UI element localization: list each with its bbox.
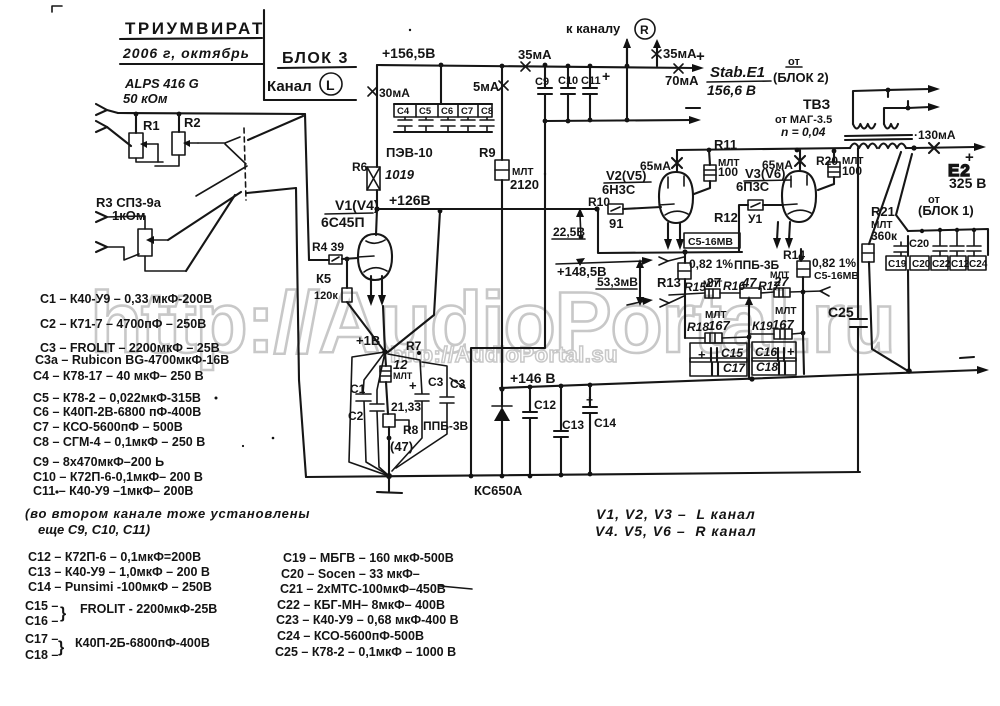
svg-text:167: 167 — [708, 318, 730, 333]
svg-text:360к: 360к — [871, 229, 898, 243]
svg-text:R4 39: R4 39 — [312, 240, 344, 254]
annotation lower arrow — [627, 301, 645, 305]
node anode junction — [374, 206, 379, 211]
svg-text:БЛОК 3: БЛОК 3 — [282, 50, 349, 67]
svg-text:С17: С17 — [723, 361, 746, 375]
svg-text:35мА: 35мА — [663, 46, 697, 61]
svg-text:1019: 1019 — [385, 167, 415, 182]
svg-text:120к: 120к — [314, 290, 338, 302]
svg-text:+: + — [698, 347, 706, 362]
svg-text:+146 В: +146 В — [510, 370, 556, 386]
svg-text:+: + — [696, 48, 705, 65]
svg-text:R14: R14 — [783, 248, 805, 262]
wire to switch second — [186, 195, 235, 271]
svg-text:12: 12 — [393, 357, 408, 372]
wire top rail — [118, 113, 305, 114]
node V3 cathode — [798, 255, 803, 260]
capacitor C9 — [538, 65, 552, 121]
svg-text:35мА: 35мА — [518, 47, 552, 62]
svg-text:С6: С6 — [441, 106, 453, 117]
input jack arrows lower — [96, 212, 107, 222]
capacitor C2 — [370, 352, 388, 475]
resistor R6 — [376, 65, 378, 167]
svg-text:С7 – КСО-5600пФ – 500В: С7 – КСО-5600пФ – 500В — [33, 420, 183, 434]
svg-text:·130мА: ·130мА — [914, 128, 956, 142]
svg-text:ППБ-3В: ППБ-3В — [423, 419, 469, 433]
node grid V1 — [345, 257, 350, 262]
svg-text:+: + — [586, 393, 593, 407]
wire R7 to R8 — [386, 382, 388, 414]
capacitor C7 — [461, 117, 475, 132]
wire R10 node down to cathode line — [598, 209, 742, 253]
wire top supply rail — [377, 65, 695, 68]
node V2 cathode — [682, 249, 687, 254]
svg-text:С16 –: С16 – — [25, 614, 58, 628]
svg-text:С8: С8 — [481, 106, 493, 117]
wire switch to grid column — [248, 116, 303, 140]
resistor R12 У1 — [748, 200, 763, 210]
svg-text:С9: С9 — [535, 76, 549, 88]
svg-text:С5: С5 — [419, 106, 432, 117]
resistor R4 39 — [329, 255, 342, 264]
svg-text:МЛТ: МЛТ — [775, 306, 796, 317]
svg-text:65мА: 65мА — [762, 158, 793, 172]
capacitor C3 — [388, 354, 429, 471]
svg-text:50 кОм: 50 кОм — [123, 91, 168, 106]
cluster outer loop left — [349, 352, 386, 475]
resistor R13 — [684, 252, 686, 263]
svg-text:R1: R1 — [143, 118, 160, 133]
node R2 top — [177, 112, 182, 117]
wire input to R3 — [107, 216, 145, 229]
svg-text:С20: С20 — [909, 238, 929, 250]
wire input to top rail — [107, 110, 118, 113]
wire R4 to tube — [342, 258, 358, 259]
wire bank bottom rail — [394, 131, 492, 133]
svg-text:R10: R10 — [588, 195, 610, 209]
svg-text:С17 –: С17 – — [25, 632, 58, 646]
svg-text:65мА: 65мА — [640, 159, 671, 173]
input jack arrows upper — [96, 104, 107, 115]
svg-text:(БЛОК 1): (БЛОК 1) — [918, 203, 974, 218]
cathode arrows V3 — [789, 222, 790, 240]
svg-text:(БЛОК 2): (БЛОК 2) — [773, 70, 829, 85]
node rail R9 — [500, 64, 505, 69]
svg-text:С10: С10 — [558, 75, 578, 87]
svg-text:V1(V4): V1(V4) — [335, 197, 379, 213]
svg-text:0,82 1%: 0,82 1% — [689, 257, 733, 271]
svg-text:+156,5В: +156,5В — [382, 45, 435, 61]
wire cathode down — [383, 306, 385, 352]
svg-text:С6 – К40П-2В-6800 пФ-400В: С6 – К40П-2В-6800 пФ-400В — [33, 405, 201, 419]
resistor R17 27 МЛТ — [761, 292, 774, 293]
svg-text:R15: R15 — [684, 280, 706, 294]
svg-text:R11: R11 — [714, 137, 737, 152]
capacitor C14 — [588, 383, 593, 388]
capacitor C12 — [528, 385, 533, 390]
capacitor C15 box — [690, 343, 747, 362]
transformer secondary winding 2 — [884, 107, 930, 124]
wire long vertical to ground rail — [296, 188, 306, 477]
node rail C4 — [439, 63, 444, 68]
wire R12 left down — [739, 205, 748, 252]
svg-text:К40П-2Б-6800пФ-400В: К40П-2Б-6800пФ-400В — [75, 636, 210, 650]
label 30мА with x mark — [368, 87, 377, 96]
wire center column — [748, 327, 750, 379]
switch gang dashed line — [244, 128, 246, 200]
svg-text:R7: R7 — [406, 339, 422, 353]
svg-text:С3: С3 — [428, 375, 444, 389]
svg-text:}: } — [60, 605, 66, 622]
svg-text:R13: R13 — [657, 275, 681, 290]
potentiometer R2 — [178, 114, 180, 132]
wire +146 rail to output — [500, 370, 980, 388]
resistor R8 — [383, 414, 395, 427]
svg-text:С12 – К72П-6 – 0,1мкФ=200В: С12 – К72П-6 – 0,1мкФ=200В — [28, 550, 201, 564]
svg-text:С1 – К40-У9 – 0,33 мкФ-200В: С1 – К40-У9 – 0,33 мкФ-200В — [40, 292, 212, 306]
svg-text:Stab.E1: Stab.E1 — [710, 64, 765, 81]
wire minus drop from psu — [471, 121, 545, 476]
ground node — [386, 473, 392, 479]
svg-text:30мА: 30мА — [379, 86, 410, 100]
svg-text:КС650А: КС650А — [474, 483, 523, 498]
zener diode КС650А — [499, 386, 504, 391]
wire bank bottom to output node — [908, 236, 909, 371]
svg-text:С11: С11 — [581, 75, 601, 87]
wire switch lower to long vertical — [247, 188, 296, 193]
capacitor C17 box — [690, 358, 747, 376]
svg-text:}: } — [58, 639, 64, 656]
svg-text:С18: С18 — [756, 360, 778, 374]
svg-text:К5: К5 — [316, 271, 331, 286]
capacitor C8 — [480, 117, 494, 132]
svg-text:(во втором канале тоже установ: (во втором канале тоже установлены — [25, 506, 310, 521]
svg-text:С24: С24 — [969, 259, 988, 270]
wire R3 wiper to switch — [168, 192, 241, 240]
ground symbol — [377, 476, 402, 493]
svg-text:6П3С: 6П3С — [736, 179, 770, 194]
svg-text:+126В: +126В — [389, 192, 431, 208]
svg-text:С18 –: С18 – — [25, 648, 58, 662]
wire R6 to V1 anode — [376, 209, 377, 235]
svg-text:R2: R2 — [184, 115, 201, 130]
svg-text:еще С9, С10, С11): еще С9, С10, С11) — [38, 522, 150, 537]
svg-text:70мА: 70мА — [665, 73, 699, 88]
capacitor C5 — [419, 117, 433, 132]
x mark 70мА — [674, 64, 683, 73]
wire R12 to V3 grid — [763, 204, 783, 206]
capacitor C16 box — [752, 342, 796, 361]
wire primary to E2 — [906, 147, 914, 149]
svg-text:С3а – Rubicon BG-4700мкФ-16В: С3а – Rubicon BG-4700мкФ-16В — [35, 353, 229, 367]
svg-text:С2: С2 — [348, 409, 364, 423]
svg-text:С5-16МВ: С5-16МВ — [688, 236, 733, 248]
svg-text:С2 – К71-7 – 4700пФ – 250В: С2 – К71-7 – 4700пФ – 250В — [40, 317, 206, 331]
svg-text:+1В: +1В — [356, 333, 380, 348]
svg-text:R8: R8 — [403, 423, 419, 437]
resistor R15 27 МЛТ — [669, 293, 705, 295]
svg-text:R9: R9 — [479, 145, 496, 160]
wire R10 to V2 grid — [623, 207, 661, 209]
wire psu minus rail — [545, 120, 692, 121]
svg-text:+: + — [602, 68, 610, 84]
wire V2 anode — [676, 150, 678, 172]
wire R4 row — [309, 259, 329, 261]
capacitor C18 box — [752, 358, 796, 375]
tube V1 6С45П — [358, 234, 392, 280]
wire pot bottoms — [136, 158, 163, 162]
svg-text:С9 – 8х470мкФ–200 Ь: С9 – 8х470мкФ–200 Ь — [33, 455, 164, 469]
svg-text:С14 – Punsimi -100мкФ – 250В: С14 – Punsimi -100мкФ – 250В — [28, 580, 212, 594]
scan speckles — [215, 397, 218, 400]
svg-text:С25 – К78-2 – 0,1мкФ – 1000 В: С25 – К78-2 – 0,1мкФ – 1000 В — [275, 645, 456, 659]
wire V3 anode — [799, 150, 801, 171]
tube V3 — [782, 171, 816, 222]
capacitor C23 col — [950, 230, 964, 256]
box С5-16МВ — [684, 233, 740, 248]
svg-text:ПЭВ-10: ПЭВ-10 — [386, 145, 433, 160]
svg-text:6Н3С: 6Н3С — [602, 182, 636, 197]
svg-text:2006 г, октябрь: 2006 г, октябрь — [122, 45, 250, 61]
annotation +148,5В arrow — [576, 258, 585, 266]
resistor R11 МЛТ 100 — [709, 150, 710, 165]
svg-text:к каналу: к каналу — [566, 21, 621, 36]
capacitor C1 — [356, 352, 388, 475]
capacitor C10 — [561, 65, 575, 120]
resistor R9 — [501, 66, 503, 160]
wire R3 bottom — [145, 256, 186, 271]
wire R8 to ground — [388, 427, 390, 476]
capacitor C6 — [441, 117, 455, 132]
svg-text:100: 100 — [718, 165, 738, 179]
resistor R10 — [594, 206, 599, 211]
svg-text:С19: С19 — [888, 259, 907, 270]
capacitor C3a crossed — [396, 362, 454, 468]
svg-text:6С45П: 6С45П — [321, 214, 365, 230]
wire channel R drop — [626, 40, 628, 120]
svg-text:V1, V2, V3 – L канал: V1, V2, V3 – L канал — [596, 506, 756, 522]
svg-text:100: 100 — [842, 164, 862, 178]
svg-text:5мА: 5мА — [473, 79, 500, 94]
svg-text:С7: С7 — [461, 106, 473, 117]
transformer primary coils — [850, 144, 906, 149]
cathode arrows V2 — [667, 223, 669, 241]
svg-text:С23 – К40-У9 – 0,68 мкФ-400 В: С23 – К40-У9 – 0,68 мкФ-400 В — [276, 613, 459, 627]
svg-text:n = 0,04: n = 0,04 — [781, 125, 826, 139]
svg-text:С1: С1 — [350, 382, 366, 396]
wire anode rail R11 — [677, 148, 850, 150]
svg-text:С12: С12 — [951, 259, 970, 270]
svg-text:0,82 1%: 0,82 1% — [812, 256, 856, 270]
svg-text:С20: С20 — [912, 259, 931, 270]
tube V2 — [659, 172, 693, 223]
wire ground rail — [306, 472, 860, 477]
svg-text:С16: С16 — [755, 345, 777, 359]
svg-text:R: R — [640, 23, 649, 37]
svg-text:V4. V5, V6 – R канал: V4. V5, V6 – R канал — [595, 523, 757, 539]
svg-text:FROLIT - 2200мкФ-25В: FROLIT - 2200мкФ-25В — [80, 602, 217, 616]
svg-text:91: 91 — [609, 216, 623, 231]
capacitor C24 col — [967, 230, 981, 256]
svg-text:L: L — [326, 77, 335, 93]
svg-text:ТВЗ: ТВЗ — [803, 96, 830, 112]
wire right column down — [803, 334, 804, 374]
svg-text:ТРИУМВИРАТ: ТРИУМВИРАТ — [125, 19, 265, 38]
svg-text:С22 – КБГ-МН– 8мкФ– 400В: С22 – КБГ-МН– 8мкФ– 400В — [277, 598, 445, 612]
wire +126 rail to R10 — [377, 208, 596, 210]
capacitor C4 — [398, 117, 412, 132]
svg-text:С4 – К78-17 – 40 мкФ– 250 В: С4 – К78-17 – 40 мкФ– 250 В — [33, 369, 204, 383]
capacitor C21 col — [933, 230, 947, 256]
svg-text:27: 27 — [705, 275, 721, 290]
wire arrow 35мА up — [656, 46, 658, 66]
svg-text:С14: С14 — [594, 416, 616, 430]
wire row A right with arrow — [790, 291, 822, 292]
svg-text:С5 – К78-2 – 0,022мкФ-315В: С5 – К78-2 – 0,022мкФ-315В — [33, 391, 201, 405]
capacitor C13 — [559, 384, 564, 389]
svg-text:R12: R12 — [714, 210, 738, 225]
svg-text:С8 – СГМ-4 – 0,1мкФ – 250 В: С8 – СГМ-4 – 0,1мкФ – 250 В — [33, 435, 205, 449]
wire R2 area to switch — [196, 166, 247, 196]
minus tick right — [960, 357, 974, 358]
svg-text:С19 – МБГВ – 160 мкФ-500В: С19 – МБГВ – 160 мкФ-500В — [283, 551, 454, 565]
node cathode cluster — [382, 349, 388, 355]
svg-text:47: 47 — [741, 275, 757, 290]
svg-text:22,5В: 22,5В — [553, 225, 585, 239]
svg-text:С10 – К72П-6-0,1мкФ– 200 В: С10 – К72П-6-0,1мкФ– 200 В — [33, 470, 203, 484]
svg-text:С4: С4 — [397, 106, 410, 117]
svg-text:С5-16МВ: С5-16МВ — [814, 270, 859, 282]
cap labels boxed row — [886, 256, 906, 270]
transformer core — [845, 135, 912, 140]
node R1 top — [134, 112, 139, 117]
annotation 22,5В arrow — [579, 235, 584, 240]
svg-text:С12: С12 — [534, 398, 556, 412]
svg-text:http://AudioPortal.su: http://AudioPortal.su — [390, 342, 618, 367]
wire transformer right to cap bank — [896, 154, 912, 231]
resistor R16 47 trimmer — [720, 292, 740, 294]
svg-text:+: + — [409, 378, 417, 393]
potentiometer R3 — [138, 229, 152, 256]
svg-text:27: 27 — [773, 274, 789, 289]
svg-text:У1: У1 — [748, 212, 762, 226]
svg-text:R18: R18 — [687, 320, 709, 334]
svg-text:53,3мВ: 53,3мВ — [597, 275, 638, 289]
title divider line — [263, 10, 265, 100]
svg-text:С13 – К40-У9 – 1,0мкФ – 200 В: С13 – К40-У9 – 1,0мкФ – 200 В — [28, 565, 210, 579]
wire bank feed — [440, 65, 442, 104]
svg-text:2120: 2120 — [510, 177, 539, 192]
svg-text:156,6 В: 156,6 В — [707, 82, 756, 98]
svg-text:Канал: Канал — [267, 78, 312, 95]
svg-text:С13: С13 — [562, 418, 584, 432]
resistor К5 120к — [346, 259, 348, 288]
capacitor C11 — [583, 66, 597, 120]
wire from +126 rail down diagonal — [388, 211, 440, 352]
capacitor bank C4-C8 — [394, 103, 492, 105]
svg-text:С20 – Socen – 33 мкФ–: С20 – Socen – 33 мкФ– — [281, 567, 420, 581]
svg-text:К19: К19 — [752, 319, 773, 333]
svg-text:R6: R6 — [352, 160, 368, 174]
resistor R7 12 МЛТ — [385, 352, 386, 366]
svg-text:С22: С22 — [932, 259, 951, 270]
cathode arrows V1 — [370, 276, 372, 297]
svg-text:21,33: 21,33 — [391, 400, 421, 414]
transformer secondary winding 1 — [853, 124, 898, 129]
svg-text:С15 –: С15 – — [25, 599, 58, 613]
wire arrow to channel R — [626, 46, 628, 65]
svg-text:325 В: 325 В — [949, 175, 986, 191]
wire grid feed vertical — [305, 114, 309, 260]
svg-text:ALPS 416 G: ALPS 416 G — [124, 76, 199, 91]
svg-text:С25: С25 — [828, 304, 854, 320]
svg-text:С24 – КСО-5600пФ-500В: С24 – КСО-5600пФ-500В — [277, 629, 424, 643]
capacitor C19 — [894, 242, 908, 256]
cap bank top rail — [908, 229, 988, 255]
potentiometer R1 — [135, 114, 137, 133]
svg-text:С21 – 2хМТС-100мкФ–450В: С21 – 2хМТС-100мкФ–450В — [280, 582, 446, 596]
node — [625, 64, 630, 69]
svg-text:+: + — [787, 344, 795, 359]
